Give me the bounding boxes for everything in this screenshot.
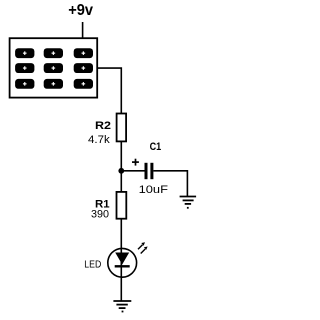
svg-text:C1: C1 <box>150 141 162 153</box>
svg-text:+9v: +9v <box>68 2 93 19</box>
svg-text:390: 390 <box>91 209 109 221</box>
svg-text:R2: R2 <box>95 120 111 132</box>
svg-text:LED: LED <box>84 260 101 271</box>
svg-text:4.7k: 4.7k <box>88 134 110 146</box>
svg-text:10uF: 10uF <box>139 184 169 196</box>
